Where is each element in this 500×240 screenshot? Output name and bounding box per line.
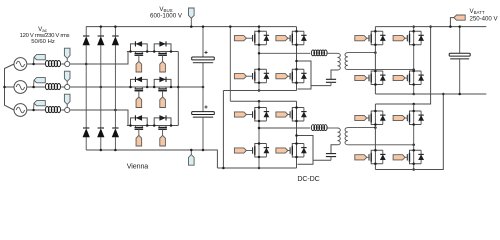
wire bridge1 node A to resonant inductor — [258, 52, 310, 55]
label 600-1000 V — [150, 13, 183, 20]
svg-text:DC-DC: DC-DC — [297, 175, 319, 183]
label VBATT — [469, 8, 484, 15]
wire phase 2 source to line inductor — [27, 86, 45, 89]
label VBUS — [159, 6, 172, 13]
transistor Q1 bridge1 high-left — [246, 30, 269, 46]
inductor L1 (AC line filter) — [45, 61, 60, 67]
wire rect2 left leg — [374, 104, 376, 170]
wire VBATT- rail — [375, 93, 486, 95]
wire T2 primary return to Cr2 — [331, 145, 338, 154]
gate probe Q9 (orange tag) — [234, 112, 246, 117]
Vienna bidirectional switch pair row 1 (Q MOSFETs back-to-back) — [127, 41, 178, 61]
gate probe Q10 (orange tag) — [234, 148, 246, 153]
wire rect2 top rail feed — [375, 25, 431, 105]
current probe phase 2 (blue tag) — [64, 71, 70, 84]
inductor L3 (AC line filter) — [45, 107, 60, 113]
label 120 V rms 230 V rms — [20, 33, 70, 39]
wire phase 3 to Vienna leg C and switch row 3 — [70, 109, 128, 126]
capacitor C1 (upper DC-link) — [192, 25, 215, 87]
wire wye neutral bus connecting AC sources — [3, 64, 14, 110]
gate probe Q2 (orange tag) — [234, 74, 246, 79]
label 50 60 Hz — [31, 39, 55, 45]
wire VBUS+ top rail — [86, 25, 297, 28]
transistor Q15 rect2 high-right — [401, 110, 424, 126]
transistor Q12 bridge2 low-right — [284, 142, 307, 158]
gate probe left FET row 2 (orange tag) — [136, 97, 142, 108]
transistor Q13 rect2 high-left — [363, 110, 386, 126]
probe VBUS (blue tag) — [189, 8, 195, 28]
wire phase 3 source to line inductor — [27, 109, 45, 112]
probe VBATT (orange tag) — [449, 15, 465, 28]
wire inductor to current sensor phase 3 — [61, 109, 64, 111]
gate probe Q12 (orange tag) — [276, 148, 288, 153]
wire bridge2 bottom rail — [217, 167, 296, 170]
wire Vienna midpoint collector — [177, 52, 180, 126]
svg-text:Vienna: Vienna — [127, 163, 149, 171]
diode D2 top (Vienna leg 2) — [97, 27, 104, 128]
wire Lr2 to transformer T2 primary — [326, 127, 337, 129]
AC source V2 (phase 2) — [14, 81, 27, 94]
wire T2 secondary top to rect2 leg — [348, 126, 377, 129]
transistor Q7 rect1 high-right — [401, 30, 424, 46]
current probe phase 1 (blue tag) — [64, 48, 70, 61]
inductor L2 (AC line filter) — [45, 84, 60, 90]
wire midpoint to DC-link center — [178, 86, 204, 89]
wire bridge2 right leg — [296, 101, 298, 168]
wire VBATT+ rail — [375, 26, 486, 28]
transistor Q16 rect2 low-right — [401, 149, 424, 165]
wire Cr2 return to bridge2 node B — [295, 134, 331, 164]
gate probe Q1 (orange tag) — [234, 36, 246, 41]
transistor Q2 bridge1 low-left — [246, 68, 269, 84]
current sensor CT3 (circle) — [65, 107, 70, 112]
diode D4 bottom (Vienna leg 1) — [83, 128, 90, 150]
gate probe Q3 (orange tag) — [276, 36, 288, 41]
gate probe Q15 (orange tag) — [393, 115, 405, 120]
current probe phase 3 (blue tag) — [64, 94, 70, 107]
wire Cr1 return to bridge1 node B — [295, 60, 331, 89]
wire phase 1 source to line inductor — [27, 63, 45, 66]
label DC-DC — [297, 175, 319, 183]
probe VBUS- (blue tag) — [189, 149, 195, 165]
gate probe Q14 (orange tag) — [355, 155, 367, 160]
gate probe Q11 (orange tag) — [276, 112, 288, 117]
wire phase 1 to Vienna leg A and switch row 1 — [70, 52, 128, 66]
transistor Q5 rect1 high-left — [363, 30, 386, 46]
transistor Q10 bridge2 low-left — [246, 142, 269, 158]
wire rect1 right leg — [412, 25, 415, 95]
diode D5 bottom (Vienna leg 2) — [97, 128, 104, 150]
wire bridge1 left leg — [258, 25, 261, 91]
transistor Q8 rect1 low-right — [401, 70, 424, 86]
svg-text:250-400 V: 250-400 V — [469, 15, 498, 22]
gate probe left FET row 3 (orange tag) — [136, 135, 142, 146]
transformer T2 secondary winding — [345, 128, 348, 145]
label Vienna — [127, 163, 149, 171]
voltage probe phase 2 (blue tag) — [34, 78, 46, 86]
wire rect1 left leg — [374, 27, 376, 94]
capacitor Cr2 (resonant) — [326, 154, 336, 161]
wire rect2 bottom rail to VBATT- — [375, 93, 444, 170]
transformer T2 primary winding — [338, 128, 341, 145]
voltage probe phase 1 (blue tag) — [34, 55, 46, 63]
transformer T1 secondary winding — [345, 53, 348, 70]
wire T1 secondary top to rectifier leg — [348, 51, 377, 54]
transistor Q4 bridge1 low-right — [284, 68, 307, 84]
gate probe Q5 (orange tag) — [355, 36, 367, 41]
gate probe Q16 (orange tag) — [393, 155, 405, 160]
gate probe right FET row 3 (orange tag) — [160, 135, 166, 146]
diode D3 top (Vienna leg 3) — [112, 27, 119, 128]
diode D1 top (Vienna leg 1) — [83, 27, 90, 128]
capacitor C2 (lower DC-link) — [192, 87, 215, 151]
svg-text:VBATT: VBATT — [469, 8, 484, 15]
wire T2 secondary bottom to rect2 leg — [348, 144, 415, 147]
wire T1 primary return to Cr1 — [331, 70, 338, 79]
wire inductor to current sensor phase 2 — [61, 86, 64, 88]
AC source V1 (phase 1) — [14, 58, 27, 71]
wire bridge1 right leg — [296, 27, 298, 91]
svg-text:50/60 Hz: 50/60 Hz — [31, 39, 55, 45]
gate probe Q4 (orange tag) — [276, 74, 288, 79]
wire Lr1 to transformer T1 primary — [326, 52, 337, 54]
transistor Q11 bridge2 high-right — [284, 106, 307, 122]
current sensor CT1 (circle) — [65, 61, 70, 66]
gate probe left FET row 1 (orange tag) — [136, 61, 142, 72]
current sensor CT2 (circle) — [65, 84, 70, 89]
diode D6 bottom (Vienna leg 3) — [112, 128, 119, 150]
svg-text:600-1000 V: 600-1000 V — [150, 13, 183, 20]
wire VBUS- bottom rail — [86, 149, 217, 168]
wire inductor to current sensor phase 1 — [61, 63, 64, 65]
capacitor Cr1 (resonant) — [326, 79, 336, 85]
svg-text:Vac: Vac — [38, 26, 48, 33]
gate probe right FET row 2 (orange tag) — [160, 97, 166, 108]
label 250-400 V — [469, 15, 498, 22]
transistor Q6 rect1 low-left — [363, 70, 386, 86]
Vienna bidirectional switch pair row 2 (Q MOSFETs back-to-back) — [127, 77, 178, 97]
gate probe Q8 (orange tag) — [393, 75, 405, 80]
transformer T1 primary winding — [338, 53, 341, 70]
capacitor C3 (output) — [449, 25, 470, 95]
wire bridge2 top rail — [230, 100, 296, 103]
inductor Lr1 (resonant) — [311, 50, 327, 56]
transistor Q3 bridge1 high-right — [284, 30, 307, 46]
voltage probe phase 3 (blue tag) — [34, 101, 46, 109]
gate probe Q7 (orange tag) — [393, 36, 405, 41]
wire top bridge1 input drop — [229, 25, 232, 101]
inductor Lr2 (resonant) — [311, 125, 327, 131]
wire bridge2 node A to resonant inductor — [258, 127, 310, 130]
gate probe right FET row 1 (orange tag) — [160, 61, 166, 72]
wire T1 secondary bottom to rectifier leg — [348, 68, 415, 71]
AC source V3 (phase 3) — [14, 104, 27, 117]
transistor Q14 rect2 low-left — [363, 149, 386, 165]
wire rect2 right leg — [412, 104, 415, 171]
Vienna bidirectional switch pair row 3 (Q MOSFETs back-to-back) — [127, 115, 178, 135]
gate probe Q13 (orange tag) — [355, 115, 367, 120]
label Vac — [38, 26, 48, 33]
wire bridge2 left leg — [258, 101, 261, 169]
wire bridge1 bottom rail — [223, 91, 296, 169]
wire phase 2 to Vienna leg B and switch row 2 — [70, 86, 127, 89]
gate probe Q6 (orange tag) — [355, 75, 367, 80]
transistor Q9 bridge2 high-left — [246, 106, 269, 122]
